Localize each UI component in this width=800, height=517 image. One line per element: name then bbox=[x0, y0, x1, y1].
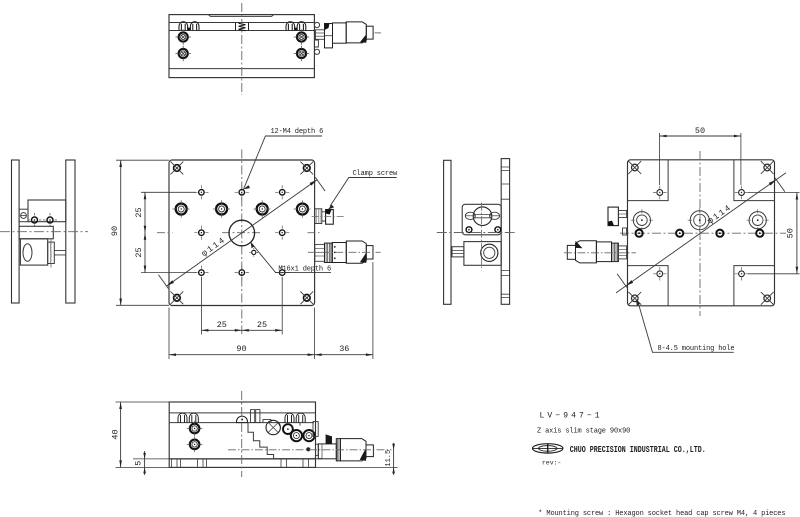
corner hole BR bbox=[300, 291, 313, 304]
right corner hole TR bbox=[761, 161, 774, 174]
company logo bbox=[533, 444, 563, 453]
bottom socket screw upper bbox=[187, 421, 203, 437]
main micrometer knurl bbox=[325, 243, 333, 262]
clamp screw leader arrow bbox=[328, 205, 334, 210]
dim 25 left ext lines bbox=[141, 192, 196, 272]
right micrometer thimble bbox=[576, 241, 597, 263]
right micrometer sleeve bbox=[618, 246, 626, 259]
rowA hole right bbox=[747, 209, 769, 231]
right dim 50 top line bbox=[660, 135, 741, 138]
pocket TR bbox=[734, 160, 775, 201]
clamp screw head bbox=[326, 210, 334, 225]
phi114 arrow lower bbox=[167, 280, 174, 286]
bottom hat 3 bbox=[285, 413, 294, 423]
rside lower box bbox=[464, 242, 501, 266]
center M16 circle bbox=[229, 220, 255, 246]
bottom clamp bits bbox=[251, 410, 260, 423]
socket cap screw 1 bbox=[173, 200, 190, 217]
bottom micrometer barrel bbox=[318, 444, 336, 459]
svg-text:25: 25 bbox=[257, 320, 267, 330]
rside small screw right bbox=[495, 227, 501, 233]
leader M16x1 bbox=[251, 242, 331, 272]
bottom bracket screw mid bbox=[291, 430, 302, 441]
bottom micrometer thimble bbox=[341, 439, 367, 461]
main micrometer mid section bbox=[332, 243, 346, 263]
leader 12-M4 arrow bbox=[244, 185, 251, 189]
svg-text:8-4.5 mounting hole: 8-4.5 mounting hole bbox=[658, 345, 735, 353]
rowA hole center bbox=[688, 208, 712, 232]
right view horizontal centerline (row B) bbox=[620, 232, 786, 234]
top view screw hat 1 bbox=[179, 22, 188, 31]
svg-text:CHUO PRECISION INDUSTRIAL CO.,: CHUO PRECISION INDUSTRIAL CO.,LTD. bbox=[570, 445, 706, 455]
right micrometer mid bbox=[596, 242, 611, 262]
bottom vertical centerline bbox=[241, 391, 243, 477]
bottom hat 2 bbox=[189, 413, 198, 423]
bottom micrometer wedge bbox=[360, 448, 366, 461]
svg-text:* Mounting screw : Hexagon soc: * Mounting screw : Hexagon socket head c… bbox=[538, 510, 785, 517]
phi114 arrow upper bbox=[310, 180, 317, 186]
clamp screw leader bbox=[330, 178, 397, 207]
dim 25 25 bottom line bbox=[201, 329, 282, 332]
dim 11.5 line bbox=[392, 443, 395, 475]
top view micrometer clamp block bbox=[325, 24, 333, 48]
leader M16x1 arrow bbox=[251, 242, 255, 248]
svg-text:12-M4 depth 6: 12-M4 depth 6 bbox=[271, 128, 324, 136]
bottom bracket screw small bbox=[283, 424, 293, 434]
svg-text:50: 50 bbox=[695, 126, 705, 136]
bottom view body bbox=[169, 402, 315, 459]
right corner hole TL bbox=[628, 161, 641, 174]
dim 11.5 ext line bbox=[316, 466, 398, 468]
right phi114 arrow upper bbox=[769, 180, 776, 186]
top view socket screw B bbox=[294, 29, 310, 45]
rside horizontal centerline bbox=[437, 232, 515, 234]
svg-text:5: 5 bbox=[134, 461, 144, 466]
svg-text:25: 25 bbox=[134, 207, 144, 217]
top view micrometer centerline dash bbox=[375, 32, 382, 34]
top view right edge small rects bbox=[314, 40, 318, 47]
left view upper box bbox=[28, 200, 66, 222]
right clamp screw head bbox=[608, 207, 618, 226]
phi114 diagonal dimension line bbox=[167, 180, 317, 286]
pocket BL bbox=[628, 266, 669, 306]
left view attachment screw bbox=[21, 213, 27, 219]
right corner hole BR bbox=[761, 292, 774, 305]
rside lower circle bbox=[481, 244, 498, 261]
dim 5 ext line bbox=[133, 458, 169, 460]
left view right plate bbox=[66, 160, 75, 303]
pocket TL bbox=[628, 160, 669, 201]
left view screw 2 bbox=[43, 213, 57, 227]
mounting hole TR bbox=[735, 186, 748, 199]
rside small screw left bbox=[466, 227, 472, 233]
right dim 50 side ext lines bbox=[748, 193, 800, 274]
phi114 tick upper bbox=[315, 177, 325, 191]
dim 90 left ext lines bbox=[116, 160, 169, 305]
left view lower box ellipse bbox=[23, 244, 32, 262]
main micrometer end cap bbox=[366, 246, 373, 259]
top view micrometer clamp block inner line bbox=[325, 35, 333, 37]
dim 25 25 left line bbox=[144, 192, 147, 272]
svg-text:11.5: 11.5 bbox=[385, 450, 393, 467]
rowB hole 4 bbox=[756, 230, 763, 237]
left view left attachment bbox=[19, 209, 28, 222]
right clamp small tick bbox=[623, 228, 627, 235]
main horizontal centerline segments bbox=[157, 232, 320, 234]
M4 hole r5c1 bbox=[194, 266, 208, 280]
M4 hole r5c3 bbox=[275, 266, 289, 280]
mounting hole BR bbox=[735, 267, 748, 280]
mounting hole TL bbox=[653, 186, 666, 199]
dim 25 bottom ext lines bbox=[201, 278, 282, 335]
dim 5 line bbox=[143, 451, 146, 475]
right micrometer thimble wedge bbox=[576, 241, 583, 249]
right plate outline bbox=[628, 160, 775, 306]
M4 hole r5c2 bbox=[235, 266, 249, 280]
svg-text:50: 50 bbox=[785, 228, 795, 238]
bottom view base plate bbox=[169, 459, 315, 468]
right view vertical centerline bbox=[699, 151, 701, 316]
bottom center dome screw bbox=[237, 416, 248, 423]
top view outline bbox=[169, 15, 314, 78]
top view micrometer thimble dark wedge bbox=[360, 34, 366, 42]
leader 8-4.5 bbox=[638, 302, 734, 353]
svg-text:Clamp screw: Clamp screw bbox=[353, 170, 399, 178]
bottom bracket dark dot bbox=[306, 447, 310, 451]
rowB hole 2 bbox=[676, 230, 683, 237]
top view inner line 3 bbox=[169, 68, 314, 70]
bottom base tick 3 bbox=[281, 459, 287, 468]
rside big slotted screw bbox=[473, 207, 492, 226]
clamp screw bracket on plate edge bbox=[315, 209, 322, 224]
top view hat dark dot right bbox=[295, 28, 297, 31]
bottom bracket outline bbox=[248, 423, 321, 459]
clamp screw centerline bbox=[312, 215, 345, 217]
left view screw 1 bbox=[28, 213, 42, 227]
top view socket screw C bbox=[175, 46, 191, 62]
main micrometer centerline bbox=[308, 251, 381, 253]
bottom micrometer knurl bbox=[336, 439, 340, 461]
right phi114 tick lower bbox=[617, 274, 627, 288]
rowB hole 3 bbox=[716, 230, 723, 237]
left view vertical centerline bbox=[50, 238, 52, 268]
main micrometer thimble bbox=[346, 241, 366, 263]
corner hole TR bbox=[300, 162, 313, 175]
bottom socket screw lower bbox=[187, 437, 203, 453]
top view micrometer clamp dark mark bbox=[325, 24, 330, 31]
top view inner line 2 bbox=[169, 30, 314, 32]
top view right edge knob circle lower bbox=[314, 49, 319, 54]
clamp screw dark mark bbox=[326, 210, 332, 215]
top view screw hat 4 bbox=[297, 22, 306, 31]
right corner hole BL bbox=[628, 292, 641, 305]
top view hat dark dot left bbox=[188, 28, 190, 31]
rside rail section lines bbox=[501, 167, 509, 298]
phi114 tick lower bbox=[159, 275, 169, 289]
corner hole TL bbox=[171, 162, 184, 175]
right clamp screw shaft bbox=[618, 211, 626, 218]
dim 90 bottom line bbox=[169, 353, 315, 356]
main plate outline bbox=[169, 160, 315, 306]
rside left plate bbox=[444, 160, 451, 304]
top view micrometer thimble bbox=[346, 22, 366, 43]
bottom micrometer neck bbox=[316, 444, 319, 455]
main micrometer thimble wedge bbox=[360, 253, 366, 263]
mounting hole BL bbox=[653, 267, 666, 280]
leader 12-M4 bbox=[244, 136, 323, 189]
top view top notch bbox=[208, 15, 273, 17]
bottom micrometer cap bbox=[366, 445, 373, 457]
M4 hole r1c1 bbox=[194, 185, 208, 199]
right clamp screw dark mark bbox=[608, 221, 614, 226]
top view spring symbol box bbox=[236, 23, 249, 31]
rowB hole 1 bbox=[636, 230, 643, 237]
right phi114 arrow lower bbox=[626, 280, 633, 286]
svg-text:40: 40 bbox=[110, 429, 120, 439]
socket cap screw 3 bbox=[254, 200, 271, 217]
small pin hole below center bbox=[249, 248, 258, 257]
M4 hole r3c3 bbox=[275, 226, 289, 240]
left view mid band bbox=[19, 226, 53, 239]
socket cap screw 4 bbox=[294, 200, 311, 217]
svg-text:Z axis slim stage 90x90: Z axis slim stage 90x90 bbox=[537, 427, 630, 435]
M4 hole r1c3 bbox=[275, 185, 289, 199]
right micrometer end cap bbox=[567, 245, 575, 259]
corner hole BL bbox=[171, 291, 184, 304]
dim 40 ext lines bbox=[116, 402, 170, 467]
bottom micrometer dark flag bbox=[326, 434, 332, 444]
main micrometer sleeve bbox=[315, 244, 325, 261]
right micrometer knurl bbox=[612, 243, 619, 262]
bottom body right edge block bbox=[313, 422, 318, 437]
right phi114 diagonal bbox=[616, 173, 786, 293]
top view micrometer end cap bbox=[366, 26, 373, 39]
right dim 50 top ext lines bbox=[660, 133, 741, 185]
top view micrometer sleeve bbox=[316, 30, 325, 40]
top view screw hat 2 bbox=[190, 22, 199, 31]
top view inner line 1 bbox=[169, 22, 314, 24]
bottom hat 1 bbox=[178, 413, 187, 423]
left view left plate bbox=[12, 160, 20, 303]
bottom hat 4 bbox=[296, 413, 305, 423]
rside oval slot right bbox=[490, 212, 500, 219]
svg-text:M16x1 depth 6: M16x1 depth 6 bbox=[278, 265, 331, 273]
dim 90 left line bbox=[119, 160, 122, 306]
left view horizontal centerline bbox=[0, 231, 88, 233]
right phi114 tick upper bbox=[775, 178, 785, 192]
svg-text:90: 90 bbox=[236, 344, 246, 354]
bottom bracket upper steps bbox=[263, 420, 300, 427]
bottom view band line 2 bbox=[169, 422, 314, 424]
bottom micrometer centerline bbox=[228, 449, 392, 451]
dim 90 bottom ext lines bbox=[169, 308, 315, 360]
rside oval slot left bbox=[465, 212, 475, 219]
rside vertical centerline bbox=[481, 203, 483, 271]
left view micrometer body bbox=[48, 242, 55, 263]
leader 8-4.5 arrow bbox=[636, 299, 640, 305]
bottom view band line 1 bbox=[169, 412, 315, 414]
left view spindle lines bbox=[54, 251, 66, 255]
top view right edge knob circle upper bbox=[314, 22, 319, 27]
rside right rail bbox=[501, 159, 509, 305]
top view screw hat 3 bbox=[286, 22, 295, 31]
svg-text:90: 90 bbox=[110, 226, 120, 236]
rside left stub bbox=[452, 247, 464, 257]
bottom bracket hatched circle bbox=[266, 420, 280, 434]
rowA hole left bbox=[631, 209, 653, 231]
socket cap screw 2 bbox=[213, 200, 230, 217]
clamp screw shaft bbox=[322, 212, 326, 221]
top view spring zigzag bbox=[239, 23, 246, 31]
top view micrometer barrel bbox=[333, 23, 347, 43]
main vertical centerline bbox=[241, 150, 243, 335]
dim 36 ext line bbox=[372, 262, 374, 359]
left view lower box bbox=[20, 239, 47, 265]
M4 hole r3c1 bbox=[194, 226, 208, 240]
rside body box bbox=[462, 204, 501, 235]
dim 36 line bbox=[315, 353, 373, 356]
top view vertical centerline bbox=[241, 3, 243, 95]
svg-text:36: 36 bbox=[339, 344, 349, 354]
right micrometer centerline bbox=[564, 252, 636, 254]
dim 40 line bbox=[119, 402, 122, 467]
bottom bracket screw right bbox=[303, 430, 314, 441]
pocket BR bbox=[734, 266, 775, 306]
top view socket screw D bbox=[294, 46, 310, 62]
svg-text:25: 25 bbox=[217, 320, 227, 330]
svg-text:rev:-: rev:- bbox=[542, 459, 562, 466]
bottom base tick 4 bbox=[303, 459, 309, 468]
svg-text:25: 25 bbox=[134, 247, 144, 257]
svg-text:LV−947−1: LV−947−1 bbox=[540, 411, 603, 420]
M4 hole r1c2 bbox=[235, 185, 249, 199]
top view socket screw A bbox=[175, 29, 191, 45]
bottom base tick 1 bbox=[172, 459, 181, 468]
right dim 50 side line bbox=[796, 193, 799, 274]
bottom base tick 2 bbox=[198, 459, 207, 468]
